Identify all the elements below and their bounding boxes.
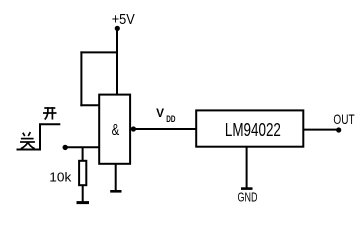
svg-text:OUT: OUT [333,112,354,127]
wire: +5V vertical into gate top [116,28,118,95]
svg-text:+5V: +5V [112,12,135,28]
svg-text:DD: DD [166,114,175,125]
wire: feedback loop left vertical [80,51,82,106]
ground bar (resistor) [77,201,90,204]
switch annotation: character 关 (off) [20,132,35,149]
svg-text:&: & [112,122,120,139]
IC U2: LM94022 body [196,110,303,146]
wire: input node to gate pin 2 [65,146,100,148]
svg-text:10k: 10k [49,170,72,185]
resistor R1 body [79,161,86,185]
switch step waveform (rising edge) [17,124,61,149]
switch annotation: character 开 (on) [43,107,57,119]
svg-text:V: V [156,106,164,120]
wire: resistor bottom lead [82,185,84,202]
node: gate output dot [131,126,136,131]
wire: resistor top lead [82,147,84,162]
wire: VDD net (gate output to LM94022) [133,128,197,130]
wire: gate input pin 1 stub [80,104,100,106]
node: +5V terminal dot [115,26,120,31]
wire: gate ground lead [115,163,117,191]
wire: feedback loop top horizontal [80,51,118,53]
ground bar (gate) [110,190,121,193]
ground bar (LM94022 GND pin) [241,187,253,190]
wire: LM94022 GND lead [246,146,248,188]
wire: OUT [303,129,339,131]
node A: input junction dot [62,145,67,150]
node: OUT terminal dot [336,127,341,132]
svg-text:LM94022: LM94022 [225,120,281,140]
and-gate U1 body [99,95,130,164]
svg-text:GND: GND [238,190,258,205]
